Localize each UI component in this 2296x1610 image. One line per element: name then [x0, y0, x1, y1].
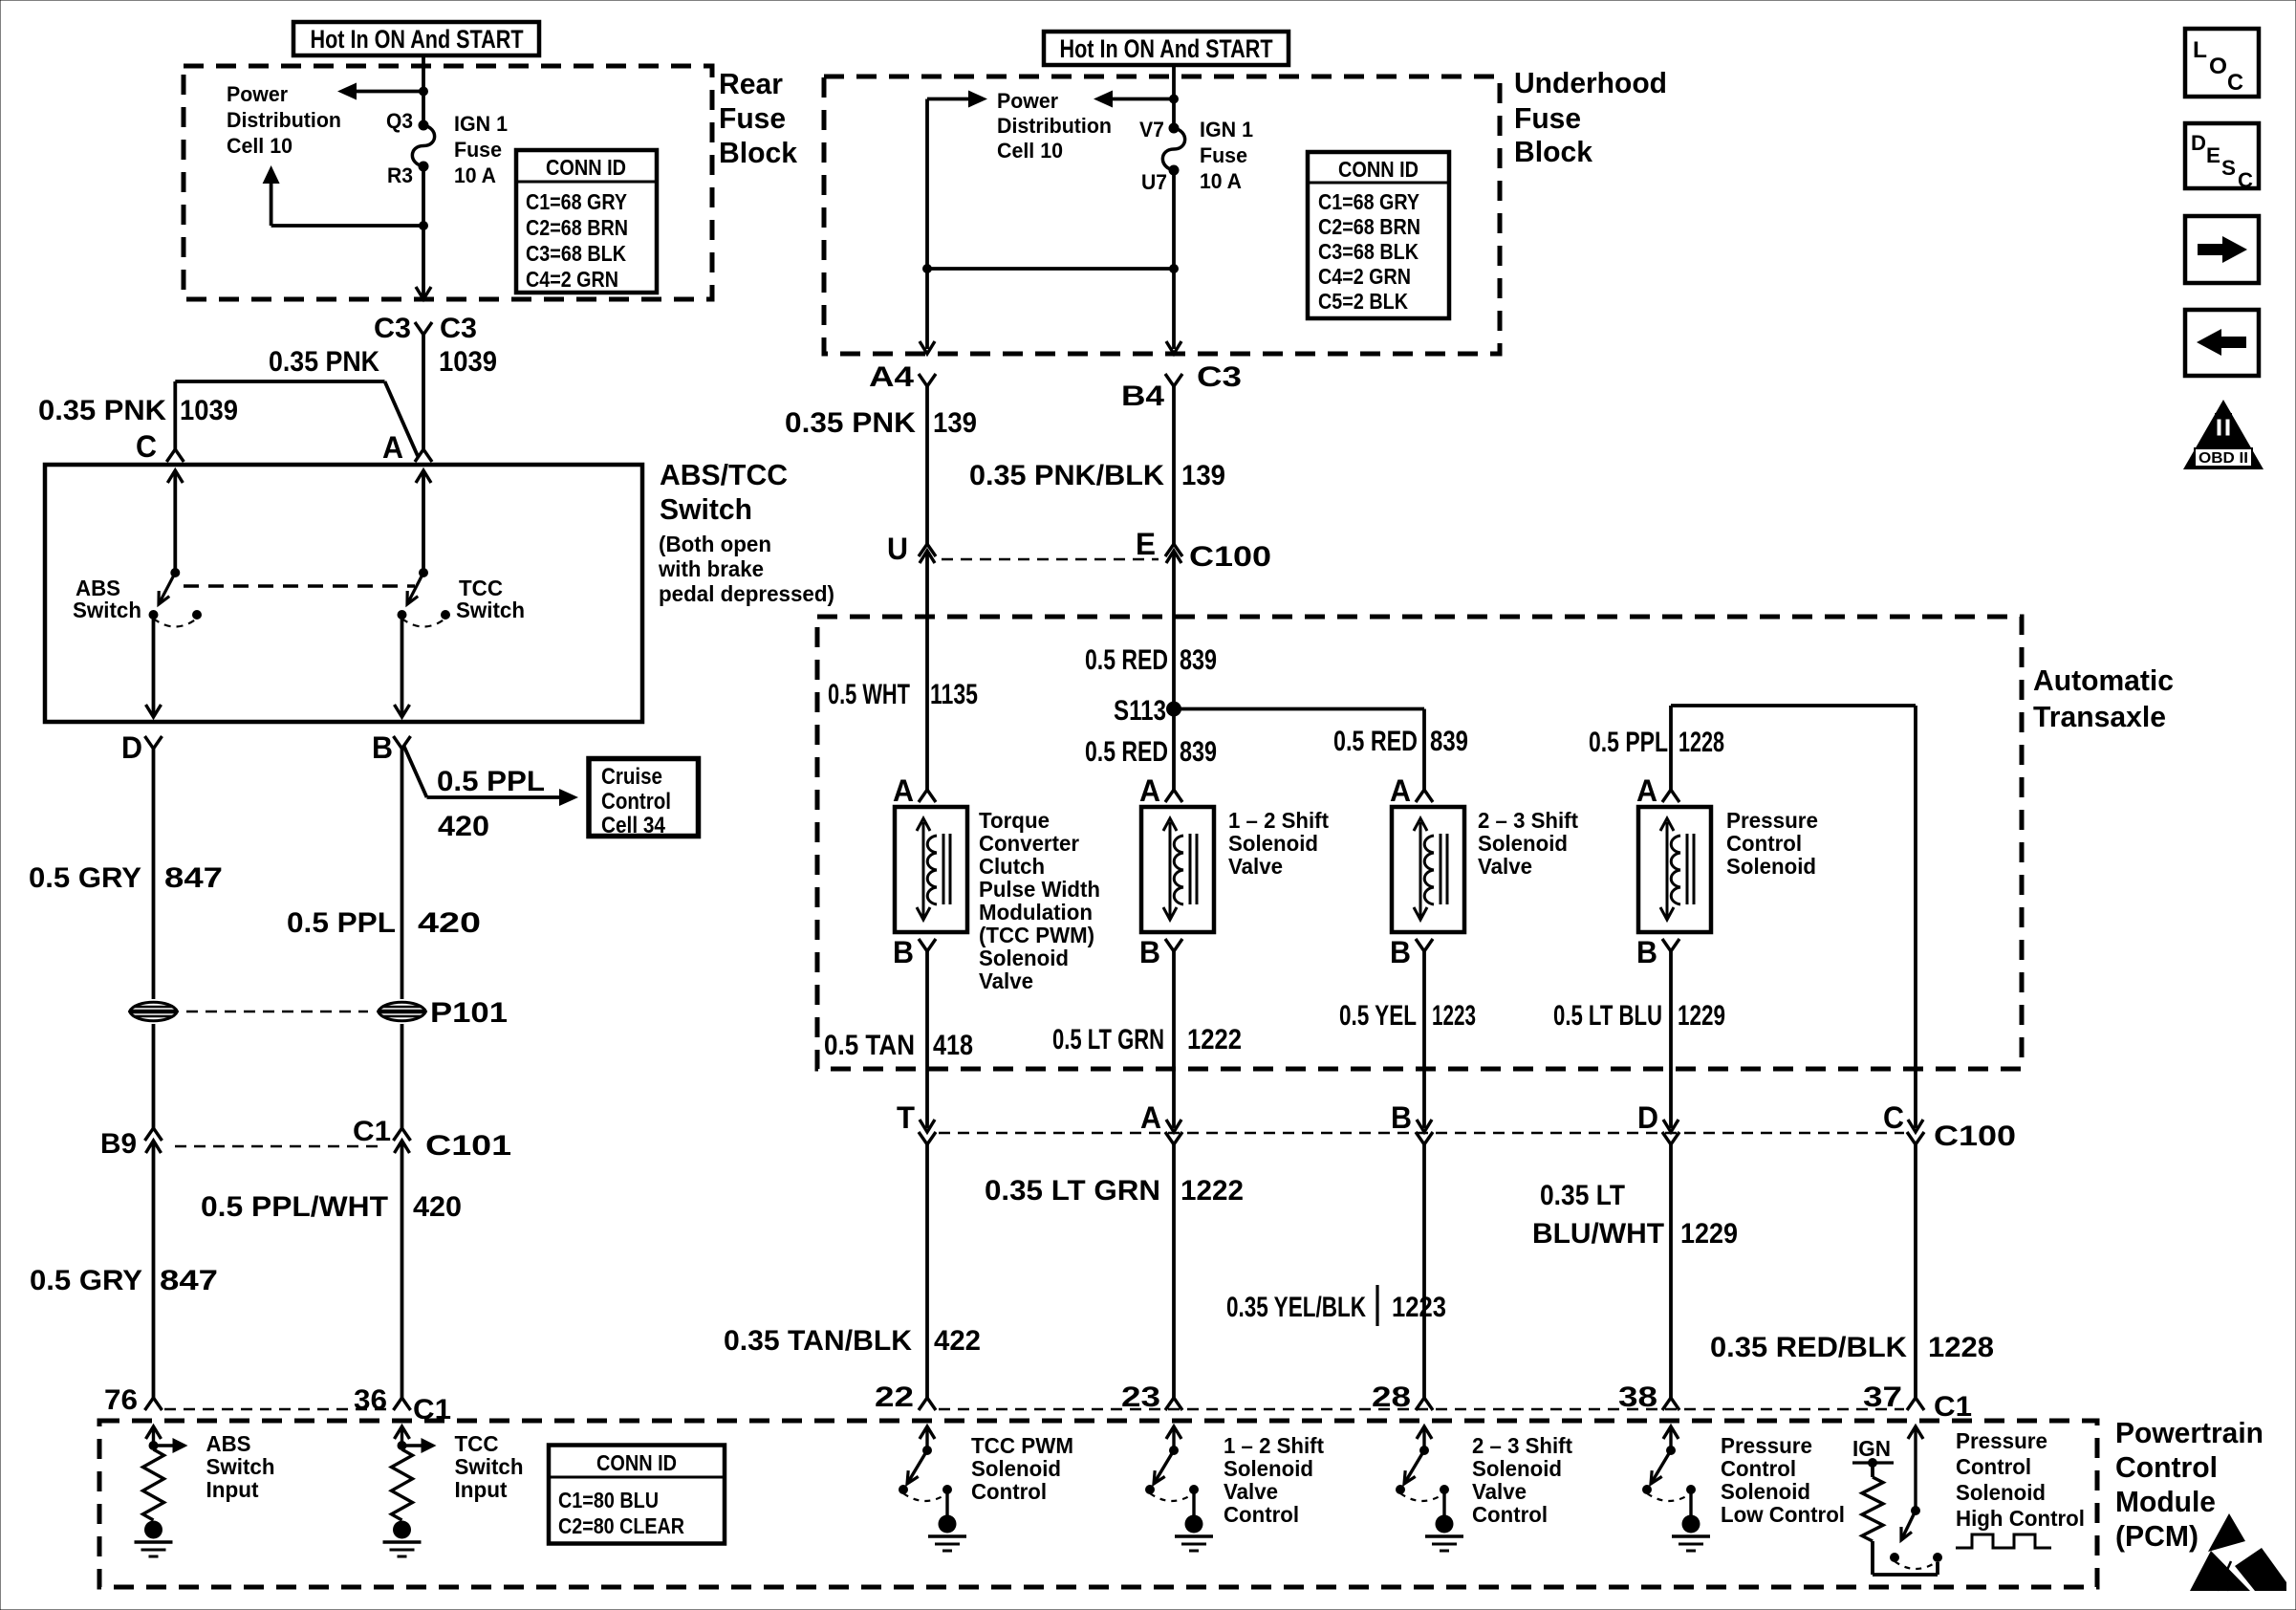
svg-text:B4: B4: [1121, 381, 1164, 412]
svg-text:0.5 PPL: 0.5 PPL: [287, 907, 396, 939]
connector terminal B (pressure control solenoid): [1662, 939, 1679, 951]
svg-text:C4=2 GRN: C4=2 GRN: [1318, 264, 1411, 289]
wire 0.5 PPL 1228 feed: [1671, 704, 1916, 707]
svg-text:Valve: Valve: [1478, 854, 1532, 879]
svg-text:C5=2 BLK: C5=2 BLK: [1318, 289, 1408, 314]
wire 0.5 GRY 847 to PCM pin 76: [152, 1157, 156, 1398]
svg-text:C1=80 BLU: C1=80 BLU: [558, 1488, 659, 1512]
svg-text:CONN ID: CONN ID: [1338, 157, 1419, 182]
wire to PCM pin: [925, 1144, 929, 1398]
svg-text:(Both open: (Both open: [659, 532, 771, 556]
dashed mechanical link ABS-TCC: [184, 584, 415, 587]
connector PCM pin 37: [1907, 1398, 1924, 1410]
svg-text:1229: 1229: [1680, 1218, 1738, 1250]
switch driver pressure control solenoid low control: [1642, 1426, 1696, 1515]
wire 0.5 WHT 1135: [925, 574, 929, 790]
svg-text:C: C: [1883, 1100, 1904, 1135]
svg-text:TCC: TCC: [455, 1431, 499, 1456]
wire to PCM pin: [1422, 1144, 1426, 1398]
svg-text:Converter: Converter: [979, 831, 1079, 856]
svg-text:Cell 34: Cell 34: [601, 813, 666, 838]
connector C101 terminal B9 (upper): [145, 1128, 162, 1141]
connector C100 terminal T (upper): [920, 1120, 935, 1132]
svg-text:1039: 1039: [439, 346, 497, 378]
svg-text:Solenoid: Solenoid: [1224, 1456, 1313, 1481]
svg-text:Fuse: Fuse: [719, 101, 786, 135]
svg-text:Distribution: Distribution: [227, 108, 341, 132]
connector PCM pin 36: [394, 1398, 411, 1410]
svg-text:Solenoid: Solenoid: [1472, 1456, 1562, 1481]
resistor TCC switch input pull-down ground: [383, 1521, 422, 1557]
svg-text:S: S: [2221, 156, 2236, 180]
connector C100 terminal B (upper): [1417, 1120, 1432, 1132]
svg-text:Modulation: Modulation: [979, 900, 1093, 925]
svg-text:Block: Block: [719, 136, 798, 169]
svg-text:0.5 RED: 0.5 RED: [1085, 736, 1168, 768]
wire jog to power distribution cell 10: [271, 224, 423, 228]
connector C100 terminal E (lower): [1166, 551, 1181, 563]
svg-text:Block: Block: [1514, 135, 1593, 168]
dashed box Underhood Fuse Block: [824, 76, 1500, 354]
wire IGN to resistor: [1871, 1463, 1874, 1477]
svg-text:0.35 PNK: 0.35 PNK: [785, 407, 916, 439]
svg-text:P101: P101: [430, 997, 508, 1029]
svg-text:0.35 LT: 0.35 LT: [1540, 1180, 1625, 1211]
node ABS switch pivot: [170, 568, 180, 577]
svg-text:D: D: [1637, 1100, 1658, 1135]
switch driver 1-2 shift solenoid valve control ground: [1175, 1515, 1213, 1552]
junction node at rear fuse feed: [419, 87, 428, 97]
switch driver 2-3 shift solenoid valve control: [1396, 1426, 1449, 1515]
connector C100 terminal C (lower): [1907, 1132, 1924, 1144]
connector terminal B: [394, 736, 411, 749]
svg-text:Solenoid: Solenoid: [1228, 831, 1318, 856]
table CONN ID (PCM): [549, 1446, 725, 1544]
svg-text:O: O: [2209, 54, 2227, 79]
wire 0.5 PPL/WHT 420 to PCM pin 36: [401, 1157, 404, 1398]
svg-text:0.5 PPL/WHT: 0.5 PPL/WHT: [201, 1191, 388, 1223]
svg-text:C1: C1: [1934, 1391, 1972, 1423]
wire from Hot In to fuse Q3: [422, 55, 425, 125]
svg-text:Switch: Switch: [73, 598, 141, 622]
solenoid valve TCC PWM: [895, 807, 967, 932]
svg-text:0.5 GRY: 0.5 GRY: [29, 862, 141, 894]
wire to PCM pin: [1669, 1144, 1673, 1398]
svg-text:C3: C3: [374, 313, 411, 344]
svg-text:0.5 PPL: 0.5 PPL: [437, 766, 545, 797]
svg-text:Control: Control: [1721, 1456, 1796, 1481]
svg-text:420: 420: [413, 1191, 462, 1223]
dashed box Automatic Transaxle: [817, 617, 2022, 1069]
svg-text:Switch: Switch: [455, 1454, 524, 1479]
box ABS/TCC Switch: [45, 465, 642, 722]
dashed connector line C100 (bottom): [939, 1132, 1904, 1135]
svg-text:High Control: High Control: [1956, 1506, 2085, 1531]
dashed connector line C100 (top): [942, 558, 1159, 561]
wire link to fused output: [927, 267, 1174, 271]
svg-text:A: A: [1390, 773, 1411, 808]
wire ABS contact to D: [152, 615, 156, 714]
dashed box Powertrain Control Module: [99, 1421, 2097, 1587]
svg-text:B: B: [1636, 935, 1657, 969]
svg-text:1223: 1223: [1432, 1000, 1476, 1032]
node TCC switch open contact: [441, 610, 450, 620]
svg-text:839: 839: [1430, 726, 1468, 757]
icon OBD II triangle: [2183, 400, 2264, 469]
svg-text:Module: Module: [2115, 1485, 2216, 1518]
connector C100 terminal U (upper): [919, 544, 936, 556]
svg-text:IGN 1: IGN 1: [454, 112, 508, 136]
table CONN ID (underhood): [1308, 152, 1449, 318]
svg-text:A: A: [1636, 773, 1657, 808]
svg-text:Control: Control: [1726, 831, 1802, 856]
svg-text:Pressure: Pressure: [1726, 808, 1818, 833]
svg-text:CONN ID: CONN ID: [596, 1450, 677, 1475]
connector C100 terminal D (upper): [1663, 1120, 1679, 1132]
svg-text:1222: 1222: [1180, 1175, 1244, 1207]
connector C101 terminal C1 (lower): [395, 1141, 410, 1153]
svg-text:ABS: ABS: [206, 1431, 251, 1456]
svg-text:Solenoid: Solenoid: [1956, 1480, 2046, 1505]
node TCC switch closed contact: [398, 610, 407, 620]
svg-text:Pressure: Pressure: [1721, 1433, 1812, 1458]
svg-text:Fuse: Fuse: [1200, 143, 1247, 167]
svg-text:1222: 1222: [1187, 1024, 1242, 1055]
connector C100 terminal T (lower): [919, 1132, 936, 1144]
svg-text:L: L: [2193, 37, 2207, 63]
connector terminal A (pressure control solenoid): [1662, 790, 1679, 802]
svg-text:Solenoid: Solenoid: [1478, 831, 1568, 856]
connector C100 terminal U (lower): [920, 551, 935, 563]
svg-text:0.35 PNK/BLK: 0.35 PNK/BLK: [969, 460, 1164, 491]
svg-text:0.5 LT BLU: 0.5 LT BLU: [1553, 1000, 1662, 1032]
svg-text:(TCC PWM): (TCC PWM): [979, 923, 1094, 947]
svg-text:E: E: [2206, 143, 2220, 167]
svg-text:C1=68 GRY: C1=68 GRY: [526, 189, 627, 214]
svg-text:Low Control: Low Control: [1721, 1502, 1845, 1527]
svg-text:C1: C1: [353, 1116, 391, 1147]
svg-text:Hot In ON And START: Hot In ON And START: [311, 25, 524, 54]
svg-text:Input: Input: [206, 1477, 259, 1502]
connector terminal B (TCC PWM solenoid): [919, 939, 936, 951]
dashed connector line C101: [175, 1145, 380, 1148]
svg-text:0.5 GRY: 0.5 GRY: [30, 1265, 142, 1296]
svg-text:with brake: with brake: [658, 556, 764, 581]
svg-text:10 A: 10 A: [1200, 169, 1242, 193]
TCC switch blade: [407, 573, 423, 604]
switch driver 2-3 shift solenoid valve control ground: [1425, 1515, 1463, 1552]
connector PCM pin 22: [919, 1398, 936, 1410]
svg-text:IGN: IGN: [1852, 1436, 1891, 1461]
svg-text:Control: Control: [601, 789, 671, 815]
svg-text:0.5 LT GRN: 0.5 LT GRN: [1052, 1024, 1164, 1055]
svg-text:Switch: Switch: [456, 598, 525, 622]
svg-text:0.5 WHT: 0.5 WHT: [828, 679, 910, 710]
fuse IGN 1 (rear fuse block): [412, 125, 434, 166]
switch driver TCC PWM solenoid control: [899, 1426, 952, 1515]
wire 0.5 GRY to C101: [152, 1024, 156, 1128]
connector A4 (underhood exit): [919, 374, 936, 386]
svg-text:D: D: [2191, 131, 2206, 155]
svg-text:0.35 TAN/BLK: 0.35 TAN/BLK: [724, 1325, 912, 1357]
svg-text:Cell 10: Cell 10: [227, 134, 292, 158]
svg-text:OBD II: OBD II: [2199, 450, 2248, 467]
svg-text:Control: Control: [1956, 1454, 2031, 1479]
svg-text:A: A: [1140, 1100, 1161, 1135]
connector PCM pin 23: [1165, 1398, 1182, 1410]
connector terminal A (2-3 shift solenoid): [1416, 790, 1433, 802]
label box "Hot In ON And START" (left): [293, 22, 539, 55]
label box "Hot In ON And START" (right): [1044, 32, 1289, 65]
wire to PCM pin: [1914, 1144, 1917, 1398]
wire to power distribution (left arrow, underhood): [1112, 98, 1174, 101]
svg-text:Control: Control: [1472, 1502, 1548, 1527]
svg-text:Switch: Switch: [206, 1454, 275, 1479]
junction node at underhood fuse feed: [1169, 95, 1179, 104]
svg-text:C: C: [2227, 70, 2243, 96]
svg-text:C3: C3: [1197, 361, 1242, 393]
svg-text:B9: B9: [100, 1128, 137, 1160]
svg-text:U: U: [887, 532, 908, 566]
svg-text:Solenoid: Solenoid: [1726, 854, 1816, 879]
connector terminal D: [145, 736, 162, 749]
svg-text:B: B: [1391, 1100, 1412, 1135]
arc TCC switch travel: [402, 619, 446, 627]
wire fuse R3 down to block exit: [422, 166, 425, 296]
svg-text:847: 847: [164, 862, 223, 894]
waveform PWM square wave: [1956, 1534, 2051, 1548]
dashed box Rear Fuse Block: [184, 66, 712, 299]
arrowhead at rear block exit: [416, 287, 431, 299]
wire 0.5 PPL 420 to cruise control: [403, 745, 427, 797]
svg-text:Cruise: Cruise: [601, 764, 662, 790]
svg-text:Valve: Valve: [1224, 1479, 1278, 1504]
svg-text:418: 418: [933, 1030, 973, 1061]
svg-text:1 – 2 Shift: 1 – 2 Shift: [1224, 1433, 1324, 1458]
svg-text:420: 420: [418, 907, 481, 939]
connector C100 terminal D (lower): [1662, 1132, 1679, 1144]
connector PCM pin 76: [145, 1398, 162, 1410]
svg-text:0.35 RED/BLK: 0.35 RED/BLK: [1710, 1332, 1907, 1363]
connector C100 terminal A (lower): [1165, 1132, 1182, 1144]
svg-text:0.35 LT GRN: 0.35 LT GRN: [985, 1175, 1160, 1207]
svg-text:Fuse: Fuse: [1514, 101, 1581, 135]
reference box Cruise Control Cell 34: [589, 759, 699, 837]
connector C100 terminal A (upper): [1166, 1120, 1181, 1132]
svg-text:2 – 3 Shift: 2 – 3 Shift: [1472, 1433, 1572, 1458]
wire from B terminal (1-2 shift): [1172, 951, 1176, 1128]
svg-text:1229: 1229: [1678, 1000, 1725, 1032]
wire from B terminal (TCC PWM): [925, 951, 929, 1128]
icon box right arrow: [2185, 216, 2259, 283]
switch driver TCC PWM solenoid control ground: [928, 1515, 966, 1552]
wire IGN rail: [1852, 1461, 1894, 1464]
connector C101 terminal C1 (upper): [394, 1128, 411, 1141]
svg-text:Powertrain: Powertrain: [2115, 1416, 2264, 1449]
svg-text:B: B: [893, 935, 914, 969]
svg-text:Underhood: Underhood: [1514, 66, 1667, 99]
svg-text:CONN ID: CONN ID: [546, 155, 626, 180]
svg-text:0.5 YEL: 0.5 YEL: [1339, 1000, 1417, 1032]
svg-text:C4=2 GRN: C4=2 GRN: [526, 267, 618, 292]
switch driver 1-2 shift solenoid valve control: [1145, 1426, 1199, 1515]
svg-text:Torque: Torque: [979, 808, 1050, 833]
dashed connector line C1 (PCM): [939, 1408, 1904, 1411]
svg-text:Rear: Rear: [719, 67, 783, 100]
svg-text:C: C: [2238, 168, 2253, 192]
connector C3 (underhood exit): [1165, 374, 1182, 386]
connector terminal A: [415, 449, 432, 462]
solenoid pressure control: [1638, 807, 1711, 932]
svg-text:1039: 1039: [180, 395, 238, 426]
connector terminal A (TCC PWM solenoid): [919, 790, 936, 802]
svg-text:V7: V7: [1139, 118, 1164, 141]
svg-text:A4: A4: [869, 361, 914, 393]
svg-text:Pressure: Pressure: [1956, 1428, 2047, 1453]
svg-text:B: B: [1139, 935, 1160, 969]
wire power distribution branch (right arrow): [927, 98, 973, 101]
wire branch 0.35 PNK to ABS switch C: [175, 380, 384, 383]
svg-text:C1=68 GRY: C1=68 GRY: [1318, 189, 1419, 214]
svg-text:10 A: 10 A: [454, 163, 496, 187]
solenoid valve 1-2 shift: [1141, 807, 1214, 932]
grommet P101 (left): [130, 1002, 178, 1021]
svg-text:D: D: [121, 730, 142, 765]
svg-text:BLU/WHT: BLU/WHT: [1532, 1218, 1664, 1250]
svg-text:C2=80 CLEAR: C2=80 CLEAR: [558, 1513, 684, 1538]
svg-text:Power: Power: [227, 82, 288, 106]
connector PCM pin 28: [1416, 1398, 1433, 1410]
arrowhead at underhood exit C3: [1166, 341, 1181, 354]
resistor TCC switch input pull-down: [395, 1426, 437, 1453]
svg-text:22: 22: [875, 1382, 914, 1413]
wire 0.5 PPL 420: [401, 749, 404, 999]
connector PCM pin 38: [1662, 1398, 1679, 1410]
svg-text:Solenoid: Solenoid: [971, 1456, 1061, 1481]
svg-text:422: 422: [934, 1325, 981, 1357]
resistor ABS switch input pull-down: [146, 1426, 188, 1453]
svg-text:Power: Power: [997, 89, 1058, 113]
svg-text:C2=68 BRN: C2=68 BRN: [1318, 214, 1420, 239]
svg-text:Valve: Valve: [1228, 854, 1283, 879]
svg-text:36: 36: [354, 1384, 387, 1416]
svg-text:1135: 1135: [930, 679, 978, 710]
svg-text:A: A: [1139, 773, 1160, 808]
arrowhead at underhood exit A4: [920, 341, 935, 354]
svg-text:1228: 1228: [1679, 727, 1724, 758]
svg-text:C101: C101: [425, 1130, 511, 1162]
svg-text:420: 420: [438, 811, 489, 842]
svg-text:Automatic: Automatic: [2033, 664, 2174, 697]
icon box LOC: [2185, 29, 2259, 97]
svg-text:pedal depressed): pedal depressed): [659, 581, 834, 606]
wire 0.5 RED 839 lower: [1172, 709, 1176, 791]
wire 0.5 RED 839 upper: [1172, 574, 1176, 709]
svg-text:Distribution: Distribution: [997, 114, 1112, 138]
wire pressure control high side: [1914, 706, 1917, 1128]
junction node to power distribution return: [419, 221, 428, 230]
svg-text:B: B: [372, 730, 393, 765]
wire TCC contact to B: [401, 615, 404, 714]
resistor ABS switch input pull-down ground: [135, 1521, 173, 1557]
junction node fused output: [1169, 264, 1179, 273]
svg-text:C2=68 BRN: C2=68 BRN: [526, 215, 628, 240]
junction node IGN rail: [1868, 1458, 1877, 1468]
wire S113 to 2-3 shift solenoid: [1174, 707, 1424, 711]
connector C3 (rear fuse block output): [415, 322, 432, 335]
svg-text:C3=68 BLK: C3=68 BLK: [526, 241, 626, 266]
wire 0.5 PPL to C101: [401, 1024, 404, 1128]
icon box left arrow: [2185, 310, 2259, 376]
svg-text:Switch: Switch: [660, 492, 752, 526]
dashed grommet link P101: [186, 1011, 368, 1013]
svg-text:0.5 RED: 0.5 RED: [1085, 644, 1168, 676]
svg-text:0.5 PPL: 0.5 PPL: [1589, 727, 1668, 758]
svg-text:Solenoid: Solenoid: [979, 946, 1069, 970]
svg-text:139: 139: [1181, 460, 1225, 491]
label separator tick (YEL/BLK): [1375, 1285, 1378, 1326]
fuse IGN 1 (underhood fuse block): [1162, 128, 1184, 170]
svg-text:0.35 PNK: 0.35 PNK: [269, 346, 379, 378]
svg-text:2 – 3 Shift: 2 – 3 Shift: [1478, 808, 1578, 833]
svg-text:Input: Input: [455, 1477, 508, 1502]
svg-text:(PCM): (PCM): [2115, 1519, 2199, 1553]
icon ESD warning triangle: [2190, 1513, 2286, 1591]
svg-text:T: T: [897, 1100, 915, 1135]
wire from Hot In (right) to fuse V7: [1172, 65, 1176, 128]
svg-text:1223: 1223: [1392, 1292, 1446, 1323]
svg-text:1 – 2 Shift: 1 – 2 Shift: [1228, 808, 1329, 833]
resistor IGN pull-up: [1862, 1477, 1883, 1541]
wire branch down to A4: [925, 99, 929, 350]
svg-text:1228: 1228: [1928, 1332, 1994, 1363]
ABS switch blade: [159, 573, 175, 604]
svg-text:Q3: Q3: [386, 109, 413, 133]
wire 0.35 PNK 139: [925, 386, 929, 544]
svg-text:E: E: [1136, 527, 1156, 561]
svg-text:Control: Control: [1224, 1502, 1299, 1527]
svg-text:Valve: Valve: [1472, 1479, 1527, 1504]
table CONN ID (rear fuse block): [516, 150, 657, 293]
svg-text:0.35 YEL/BLK: 0.35 YEL/BLK: [1226, 1292, 1366, 1323]
svg-text:S113: S113: [1114, 695, 1166, 727]
svg-text:Transaxle: Transaxle: [2033, 700, 2166, 733]
connector C101 terminal B9 (lower): [146, 1141, 162, 1153]
svg-text:IGN 1: IGN 1: [1200, 118, 1253, 141]
connector terminal B (1-2 shift solenoid): [1165, 939, 1182, 951]
node ABS switch open contact: [192, 610, 202, 620]
wire 0.35 PNK/BLK 139: [1172, 386, 1176, 544]
connector terminal C: [166, 449, 184, 462]
svg-text:Valve: Valve: [979, 968, 1033, 993]
connector C100 terminal C (upper): [1908, 1120, 1923, 1132]
svg-text:U7: U7: [1141, 170, 1167, 194]
svg-text:C3: C3: [440, 313, 477, 344]
node pressure high switch contact (IGN side): [1933, 1553, 1942, 1562]
svg-text:C100: C100: [1934, 1120, 2016, 1152]
svg-text:Pulse Width: Pulse Width: [979, 877, 1100, 902]
svg-text:839: 839: [1180, 736, 1217, 768]
svg-text:A: A: [382, 430, 403, 465]
icon box DESC: [2185, 123, 2259, 188]
svg-text:847: 847: [160, 1265, 218, 1296]
wire to power distribution (left arrow): [356, 90, 423, 94]
splice S113: [1166, 702, 1181, 717]
svg-text:0.35 PNK: 0.35 PNK: [38, 395, 166, 426]
svg-text:Clutch: Clutch: [979, 854, 1045, 879]
dashed connector line C1 (left): [164, 1408, 391, 1411]
wire to PCM pin: [1172, 1144, 1176, 1398]
